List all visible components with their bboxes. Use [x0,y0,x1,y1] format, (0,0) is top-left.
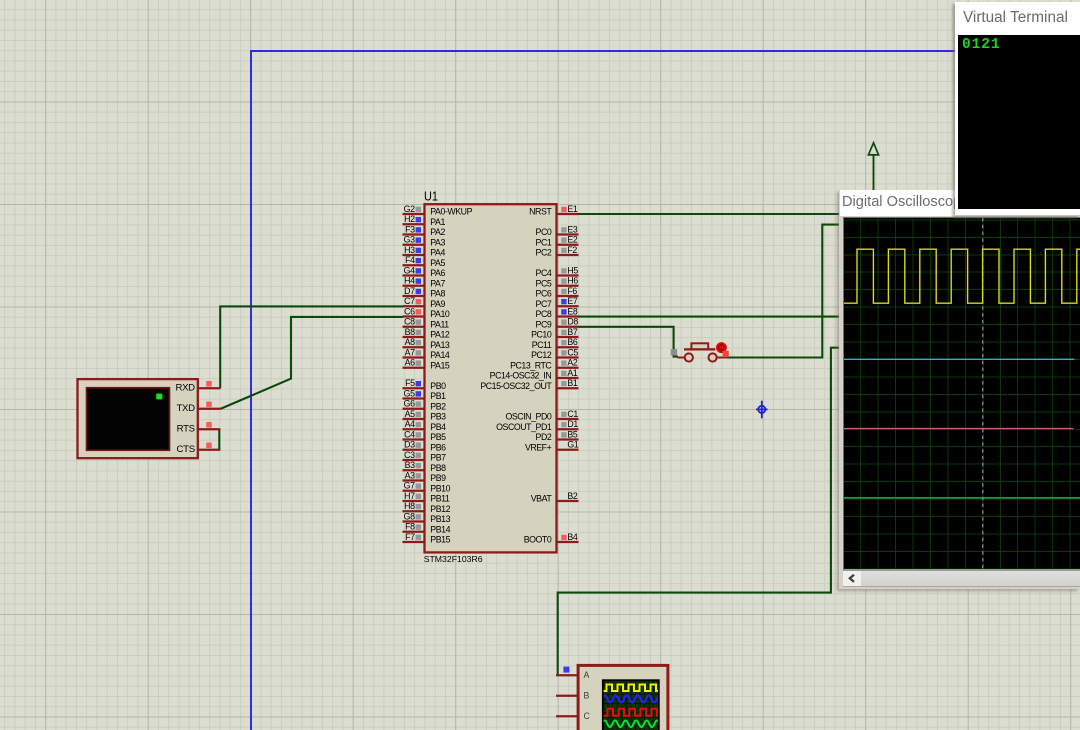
svg-text:A7: A7 [405,347,415,357]
svg-text:B8: B8 [405,327,415,337]
svg-text:OSCOUT_PD1: OSCOUT_PD1 [496,422,552,432]
svg-text:BOOT0: BOOT0 [524,535,552,545]
terminal pin CTS [198,449,221,451]
svg-text:B7: B7 [567,327,577,337]
svg-text:G3: G3 [404,235,415,245]
svg-text:PC0: PC0 [536,227,552,237]
svg-text:PC5: PC5 [536,278,552,288]
wire PC9 to button [579,327,674,352]
svg-text:G6: G6 [404,399,415,409]
svg-text:F7: F7 [405,532,415,542]
svg-text:F4: F4 [405,255,415,265]
svg-text:PB4: PB4 [430,422,446,432]
svg-text:F6: F6 [567,286,577,296]
push-button cap [691,343,708,349]
svg-text:G1: G1 [567,440,578,450]
U1 right pin stubs [557,213,579,215]
svg-text:PB0: PB0 [430,381,446,391]
svg-text:A3: A3 [405,470,415,480]
svg-text:PA14: PA14 [430,350,450,360]
svg-text:STM32F103R6: STM32F103R6 [424,554,483,564]
svg-text:PA2: PA2 [430,227,445,237]
wire PA10 to terminal TXD [220,317,403,409]
svg-text:H7: H7 [404,491,415,501]
svg-text:F5: F5 [405,378,415,388]
push-button actuator bar [684,348,715,350]
svg-text:PD2: PD2 [536,432,552,442]
svg-text:E1: E1 [567,204,577,214]
svg-text:F2: F2 [567,245,577,255]
svg-text:G5: G5 [404,388,415,398]
sheet border blue left edge [250,50,252,730]
push-button left lead [678,357,685,359]
virtual terminal component screen [87,388,170,451]
mini screen yellow square trace [602,685,659,692]
op-amp U1 body STM32F103R6 microcontroller [425,204,557,552]
push-button interactive actuator red ball [716,342,727,353]
sheet border blue top edge [250,50,1080,52]
svg-text:PC7: PC7 [536,299,552,309]
terminal pin RXD [198,387,221,389]
svg-text:PC12: PC12 [531,350,552,360]
svg-text:F3: F3 [405,224,415,234]
wire PA9 to terminal RXD [220,306,403,388]
svg-text:PA11: PA11 [430,319,449,329]
svg-text:B2: B2 [567,491,577,501]
svg-text:A1: A1 [567,368,577,378]
push-button left terminal junction square [671,349,677,355]
svg-text:PA0-WKUP: PA0-WKUP [430,207,472,217]
power arrow VCC on NRST net [868,143,878,155]
svg-text:E2: E2 [567,235,577,245]
mini screen blue sine trace [602,695,668,702]
svg-text:PA1: PA1 [430,217,445,227]
svg-text:A8: A8 [405,337,415,347]
svg-text:F8: F8 [405,522,415,532]
Virtual Terminal instrument window [955,2,1080,216]
wire button right to oscilloscope channel [727,225,842,358]
oscilloscope screen with traces [843,217,1080,571]
oscilloscope component pin B stub [556,695,578,697]
svg-text:PB7: PB7 [430,453,446,463]
svg-text:D1: D1 [567,419,578,429]
svg-text:PC2: PC2 [536,248,552,258]
svg-text:CTS: CTS [177,444,195,455]
push-button right lead [717,357,727,359]
svg-text:B5: B5 [567,429,577,439]
svg-text:C4: C4 [404,429,415,439]
oscilloscope component mini screen [602,679,660,730]
svg-text:C7: C7 [404,296,415,306]
svg-text:U1: U1 [424,189,438,204]
svg-text:PB8: PB8 [430,463,446,473]
svg-text:G7: G7 [404,481,415,491]
svg-text:D3: D3 [404,440,415,450]
wire PC8 to oscilloscope [579,316,842,318]
svg-text:NRST: NRST [529,207,552,217]
push-button right contact circle [709,353,717,361]
svg-text:H3: H3 [404,245,415,255]
wire terminal RTS to CTS [218,429,220,450]
svg-text:PB9: PB9 [430,473,446,483]
svg-text:PA13: PA13 [430,340,450,350]
mini screen green sine trace [602,721,665,728]
svg-text:PC4: PC4 [536,268,552,278]
svg-text:E3: E3 [567,224,577,234]
svg-text:E7: E7 [567,296,577,306]
svg-text:C1: C1 [567,409,578,419]
wire button left stub link [674,351,678,357]
svg-text:PC14-OSC32_IN: PC14-OSC32_IN [490,371,552,381]
virtual terminal title [963,9,1068,27]
svg-text:PB11: PB11 [430,494,450,504]
svg-text:PB1: PB1 [430,391,446,401]
svg-text:PC8: PC8 [536,309,552,319]
oscilloscope pin A state square blue [563,667,569,673]
oscilloscope window title bar [840,190,1080,216]
svg-text:PA9: PA9 [430,299,445,309]
svg-text:B6: B6 [567,337,577,347]
svg-text:A: A [584,670,590,680]
svg-text:A2: A2 [567,358,577,368]
svg-text:PB2: PB2 [430,401,446,411]
svg-text:B4: B4 [567,532,577,542]
U1 left pin stubs [403,213,425,215]
svg-text:TXD: TXD [177,403,196,414]
svg-text:PA12: PA12 [430,330,450,340]
svg-text:PC6: PC6 [536,289,552,299]
svg-text:PB3: PB3 [430,412,446,422]
svg-text:PB13: PB13 [430,514,450,524]
wire NRST to power rail [579,213,842,215]
Digital Oscilloscope instrument window [839,190,1080,589]
svg-text:H8: H8 [404,501,415,511]
oscilloscope component body [578,665,668,730]
svg-text:A4: A4 [405,419,415,429]
terminal pin TXD [198,408,221,410]
svg-text:PB14: PB14 [430,524,450,534]
oscilloscope component pin A stub [556,674,578,676]
svg-text:B3: B3 [405,460,415,470]
svg-text:PA4: PA4 [430,248,445,258]
svg-text:OSCIN_PD0: OSCIN_PD0 [505,412,551,422]
svg-text:C6: C6 [404,306,415,316]
svg-text:PC10: PC10 [531,330,552,340]
svg-text:PC1: PC1 [536,237,552,247]
svg-text:PC13_RTC: PC13_RTC [510,360,552,370]
svg-text:B: B [584,691,590,701]
svg-text:PB5: PB5 [430,432,446,442]
virtual terminal cursor block [156,394,162,400]
terminal pin RTS [198,428,221,430]
svg-text:E8: E8 [567,306,577,316]
svg-text:C8: C8 [404,317,415,327]
svg-text:PB15: PB15 [430,535,450,545]
svg-text:A6: A6 [405,358,415,368]
svg-text:G4: G4 [404,265,415,275]
svg-text:C5: C5 [567,347,578,357]
wire oscilloscope channel C to scope component pin A [558,348,841,676]
svg-text:G2: G2 [404,204,415,214]
mini screen red square trace [602,709,659,716]
svg-text:H5: H5 [567,265,578,275]
svg-text:PB10: PB10 [430,483,450,493]
svg-text:B1: B1 [567,378,577,388]
push-button right state square [723,351,729,357]
svg-text:C3: C3 [404,450,415,460]
svg-text:A5: A5 [405,409,415,419]
svg-text:PA8: PA8 [430,289,445,299]
svg-text:PA5: PA5 [430,258,445,268]
svg-text:VREF+: VREF+ [525,442,552,452]
svg-text:PC11: PC11 [532,340,552,350]
push-button left contact circle [685,353,693,361]
virtual terminal component body [78,379,198,458]
svg-text:H2: H2 [404,214,415,224]
svg-text:G8: G8 [404,511,415,521]
svg-text:PA7: PA7 [430,278,445,288]
svg-text:PA6: PA6 [430,268,445,278]
svg-text:H4: H4 [404,276,415,286]
virtual terminal screen [958,35,1080,209]
svg-text:PC9: PC9 [536,319,552,329]
svg-text:H6: H6 [567,276,578,286]
svg-text:D7: D7 [404,286,415,296]
svg-text:RTS: RTS [177,424,195,435]
svg-text:D8: D8 [567,317,578,327]
svg-text:PB12: PB12 [430,504,450,514]
svg-text:C: C [584,711,591,721]
svg-text:VBAT: VBAT [531,494,553,504]
svg-text:PA3: PA3 [430,237,445,247]
blue origin marker [756,401,768,419]
svg-text:PC15-OSC32_OUT: PC15-OSC32_OUT [480,381,552,391]
svg-text:RXD: RXD [175,383,195,394]
svg-text:PA15: PA15 [430,360,450,370]
oscilloscope window scrollbar [843,571,1080,587]
oscilloscope component pin C stub [556,715,578,717]
svg-text:PB6: PB6 [430,442,446,452]
svg-text:PA10: PA10 [430,309,450,319]
